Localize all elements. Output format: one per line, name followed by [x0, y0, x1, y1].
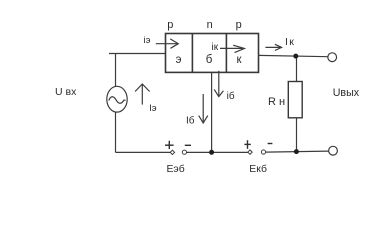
svg-text:Iк: Iк: [285, 36, 295, 48]
svg-text:U вх: U вх: [55, 86, 77, 98]
svg-text:n: n: [207, 19, 213, 31]
svg-text:iб: iб: [227, 90, 235, 102]
svg-text:б: б: [206, 54, 213, 66]
svg-text:p: p: [167, 19, 173, 31]
svg-text:Еэб: Еэб: [167, 163, 185, 175]
svg-text:R н: R н: [268, 96, 285, 108]
svg-text:Uвых: Uвых: [333, 87, 360, 99]
svg-text:Iб: Iб: [186, 115, 195, 127]
svg-text:к: к: [236, 54, 242, 66]
svg-text:э: э: [176, 54, 182, 66]
svg-text:p: p: [236, 19, 242, 31]
svg-text:Iэ: Iэ: [149, 103, 157, 114]
svg-text:iэ: iэ: [144, 35, 151, 46]
svg-text:Екб: Екб: [249, 163, 267, 175]
svg-text:iк: iк: [211, 42, 218, 53]
